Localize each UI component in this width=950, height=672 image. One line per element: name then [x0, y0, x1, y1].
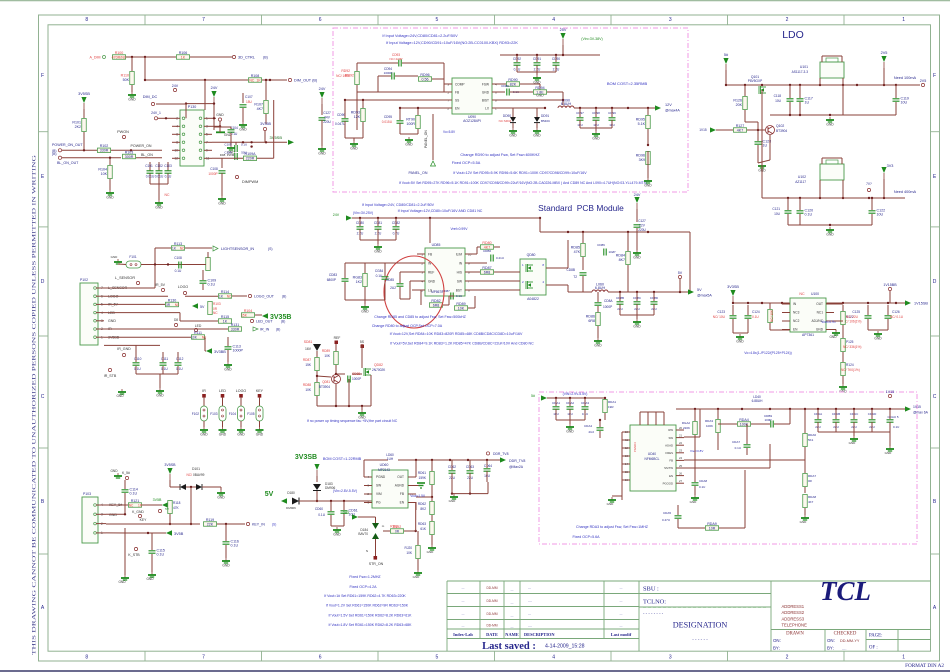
resistor R115 [219, 319, 232, 324]
svg-text:- - - - - -: - - - - - - [692, 637, 708, 642]
resistor R113 [172, 246, 185, 251]
wire [887, 305, 889, 315]
resistor RDA9 [706, 526, 719, 531]
ground [151, 572, 153, 575]
svg-text:Fixed Fsw=1.2MHZ: Fixed Fsw=1.2MHZ [349, 575, 381, 579]
svg-text:100R: 100R [406, 122, 415, 126]
wire [473, 262, 487, 264]
svg-text:0.1U: 0.1U [456, 294, 462, 298]
ground [230, 145, 232, 148]
svg-text:0.1U: 0.1U [208, 282, 216, 286]
pin [194, 328, 197, 331]
ground [417, 570, 419, 573]
svg-text:If Vout=1.2V Set RD61=150K RD6: If Vout=1.2V Set RD61=150K RD62=9R RD63=… [326, 604, 409, 608]
wire [431, 535, 433, 545]
svg-text:CDAU 5: CDAU 5 [887, 415, 898, 419]
junction [562, 54, 564, 56]
svg-text:15: 15 [625, 470, 629, 474]
wire [364, 459, 388, 461]
junction [536, 54, 538, 56]
svg-text:...: ... [462, 586, 465, 590]
svg-text:RD92: RD92 [341, 69, 350, 73]
junction [431, 496, 433, 498]
svg-text:BL_ON: BL_ON [141, 153, 153, 157]
wire [316, 491, 318, 501]
diode DD91 [534, 117, 540, 122]
capacitor C109 [200, 280, 207, 282]
junction [732, 302, 734, 304]
wire [159, 374, 161, 388]
fuse F102 [201, 406, 208, 421]
svg-text:D180: D180 [287, 491, 295, 495]
svg-text:LED_OUT: LED_OUT [256, 320, 273, 324]
svg-text:If Vout=1# Set RD61=159K RD62=: If Vout=1# Set RD61=159K RD62=4.7K RD63=… [324, 594, 406, 598]
svg-text:C125: C125 [852, 310, 860, 314]
wire [510, 91, 533, 93]
svg-text:BIST: BIST [482, 98, 489, 102]
capacitor C119 [893, 98, 900, 100]
ground [595, 131, 597, 134]
junction [415, 530, 417, 532]
junction [417, 107, 419, 109]
svg-text:(B): (B) [52, 152, 57, 156]
svg-text:P102: P102 [80, 278, 88, 282]
wire [106, 504, 128, 506]
svg-text:10K: 10K [305, 388, 312, 392]
resistor RG83 [363, 274, 368, 287]
svg-text:CD83: CD83 [329, 273, 337, 277]
svg-text:GND: GND [736, 340, 744, 344]
wire [185, 104, 187, 119]
pin [183, 291, 186, 294]
wire [762, 197, 905, 199]
wire [819, 180, 821, 198]
svg-text:RD62: RD62 [418, 502, 426, 506]
svg-text:0.1U: 0.1U [165, 175, 172, 179]
svg-text:NC: NC [165, 193, 170, 197]
wire [230, 127, 232, 129]
svg-text:BY:: BY: [827, 646, 834, 651]
svg-text:DIMPWM: DIMPWM [242, 180, 258, 184]
svg-text:...: ... [511, 601, 514, 605]
net arrow [281, 498, 287, 504]
resistor RDA4 [738, 422, 751, 427]
svg-text:F: F [41, 73, 44, 79]
svg-text:0.01U: 0.01U [155, 175, 164, 179]
wire [732, 305, 734, 315]
wire [761, 90, 763, 198]
junction [451, 492, 453, 494]
svg-text:NC 1K: NC 1K [249, 78, 261, 82]
pin [58, 156, 61, 159]
svg-text:C107: C107 [245, 95, 253, 99]
wire [316, 371, 318, 382]
wire [370, 380, 372, 406]
junction [169, 523, 171, 525]
wire [842, 325, 844, 334]
junction [579, 107, 581, 109]
svg-text:11: 11 [625, 438, 628, 442]
svg-text:220U: 220U [638, 228, 646, 232]
pin [173, 88, 176, 91]
wire [789, 409, 791, 424]
wire [169, 480, 171, 487]
wire [104, 303, 165, 305]
svg-text:F103: F103 [210, 412, 217, 416]
junction [544, 107, 546, 109]
svg-text:R109A: R109A [245, 152, 257, 156]
wire [868, 329, 888, 331]
wire [417, 129, 419, 134]
junction [265, 79, 267, 81]
junction [213, 117, 215, 119]
junction [124, 513, 126, 515]
svg-text:DD-MM: DD-MM [487, 612, 498, 616]
svg-text:(Vin=2.8V-5.5V): (Vin=2.8V-5.5V) [333, 489, 357, 493]
junction [789, 84, 791, 86]
svg-text:...: ... [462, 599, 465, 603]
wire [142, 504, 162, 506]
svg-text:PANEL_ON: PANEL_ON [409, 171, 428, 175]
svg-text:Change RD90 to adjust Fsw, Set: Change RD90 to adjust Fsw, Set Fsw=600KH… [460, 153, 540, 157]
power 24V [636, 203, 638, 209]
svg-text:1: 1 [902, 17, 905, 23]
svg-text:13: 13 [625, 454, 629, 458]
wire [317, 500, 372, 502]
svg-text:5.1K: 5.1K [638, 122, 646, 126]
pin [263, 127, 266, 130]
ground [842, 384, 844, 387]
ground [336, 527, 338, 530]
wire [232, 295, 247, 297]
wire [335, 384, 337, 406]
wire [647, 165, 649, 178]
svg-text:1: 1 [902, 655, 905, 661]
ground [611, 497, 613, 500]
svg-text:24V: 24V [172, 84, 179, 88]
transistor Q102 [766, 126, 775, 135]
wire [842, 78, 844, 115]
svg-text:LOGO_OUT: LOGO_OUT [254, 295, 275, 299]
svg-text:FRES: FRES [666, 451, 674, 455]
svg-text:NC/ 220P: NC/ 220P [389, 57, 402, 61]
svg-text:GND: GND [109, 513, 117, 517]
fuse F104 [238, 406, 245, 421]
svg-text:3D_CTRL: 3D_CTRL [238, 56, 255, 60]
svg-text:GND: GND [156, 394, 164, 398]
svg-text:12K: 12K [354, 115, 361, 119]
ground [222, 427, 224, 430]
junction [717, 408, 719, 410]
net arrow [162, 502, 168, 508]
svg-text:5V: 5V [165, 507, 169, 511]
svg-text:RD82: RD82 [431, 299, 440, 303]
wire [834, 329, 836, 331]
svg-text:GND: GND [108, 319, 116, 323]
svg-text:AOZ1284PI: AOZ1284PI [463, 119, 481, 123]
svg-text:IR_5V: IR_5V [155, 283, 166, 287]
wire [409, 281, 411, 299]
svg-text:RDA1: RDA1 [608, 400, 616, 404]
wire [344, 100, 346, 118]
svg-text:0.1U: 0.1U [161, 367, 168, 371]
wire [539, 218, 541, 232]
power 2V5 [883, 62, 885, 68]
svg-text:SS: SS [455, 98, 459, 102]
svg-text:OF :: OF : [869, 646, 878, 651]
wire [676, 408, 905, 410]
wire [151, 544, 153, 550]
fuse F103 [219, 406, 226, 421]
svg-text:CD85: CD85 [386, 278, 394, 282]
svg-text:RGA2: RGA2 [682, 421, 691, 425]
junction [883, 84, 885, 86]
wire [412, 289, 417, 291]
wire [190, 56, 232, 58]
wire [612, 495, 622, 497]
svg-text:Change RD80 to adjust OCP,Set: Change RD80 to adjust OCP,Set OCP=7.0A [372, 324, 443, 328]
wire [213, 104, 215, 130]
junction [781, 302, 783, 304]
resistor R121 [129, 503, 142, 508]
svg-text:DD-MM: DD-MM [487, 599, 498, 603]
pin [250, 319, 253, 322]
svg-text:RDA3: RDA3 [705, 419, 713, 423]
svg-text:330R: 330R [231, 327, 240, 331]
wire [474, 296, 476, 308]
svg-text:C110: C110 [134, 357, 142, 361]
svg-text:GND: GND [110, 469, 118, 473]
ground [220, 490, 222, 493]
wire [417, 108, 419, 115]
wire [716, 129, 733, 131]
wire [627, 265, 629, 292]
svg-text:GND: GND [128, 98, 136, 102]
wire [356, 85, 358, 92]
svg-text:10U: 10U [774, 212, 781, 216]
svg-text:1K: 1K [181, 55, 186, 59]
junction [147, 532, 149, 534]
wire [789, 85, 791, 98]
wire [639, 412, 641, 425]
net arrow [352, 514, 358, 519]
svg-text:5: 5 [436, 655, 439, 661]
wire [158, 184, 160, 200]
svg-text:27: 27 [679, 479, 683, 483]
svg-text:2: 2 [786, 655, 789, 661]
wire [520, 83, 540, 85]
title block [447, 580, 931, 582]
svg-text:330R: 330R [100, 149, 109, 153]
svg-text:LED: LED [219, 389, 226, 393]
svg-text:GND: GND [874, 337, 882, 341]
svg-text:C124: C124 [752, 310, 760, 314]
wire [747, 319, 749, 333]
svg-text:- - - - - - - -: - - - - - - - - [643, 611, 664, 616]
svg-text:R192: R192 [390, 525, 398, 529]
svg-text:RD87: RD87 [482, 266, 491, 270]
svg-text:DM906: DM906 [286, 506, 296, 510]
fuse F101 [126, 261, 141, 268]
wire [416, 496, 432, 498]
svg-text:GND: GND [449, 499, 457, 503]
junction [190, 523, 192, 525]
svg-text:D8: D8 [174, 318, 178, 322]
svg-text:QD80: QD80 [527, 253, 536, 257]
ground [321, 146, 323, 149]
svg-text:RJ20: RJ20 [405, 546, 413, 550]
wire [769, 323, 771, 330]
svg-text:L_SENSOR: L_SENSOR [115, 276, 136, 280]
wire [636, 209, 638, 222]
svg-text:LOGO: LOGO [236, 389, 247, 393]
connector P102 [80, 283, 98, 345]
junction [895, 302, 897, 304]
svg-text:If Input Voltage=24V,CD80/CD81: If Input Voltage=24V,CD80/CD81=2.2uF/50V [382, 34, 458, 38]
wire [202, 486, 221, 488]
wire [842, 334, 844, 338]
junction [599, 419, 601, 421]
svg-text:R106: R106 [179, 51, 188, 55]
wire [352, 217, 498, 219]
svg-text:1000P: 1000P [384, 71, 393, 75]
wire [694, 435, 696, 450]
wire [567, 240, 569, 268]
wire [383, 530, 390, 532]
wire [677, 505, 679, 515]
wire [819, 78, 821, 85]
wire [360, 239, 396, 241]
power 3V5SB [169, 474, 171, 480]
svg-text:GND: GND [566, 430, 574, 434]
svg-text:R115: R115 [221, 315, 229, 319]
IC U101 [820, 62, 844, 78]
svg-text:GND: GND [633, 325, 641, 329]
svg-text:GND: GND [509, 134, 517, 138]
IC UD85 MP8670 [425, 248, 465, 296]
junction [761, 84, 763, 86]
wire [871, 214, 873, 225]
svg-text:THIS DRAWING CANNOT BE COMMUNI: THIS DRAWING CANNOT BE COMMUNICATED TO U… [33, 154, 38, 655]
wire [834, 320, 843, 322]
wire [663, 412, 665, 425]
svg-text:GND: GND [200, 433, 208, 437]
wire [569, 420, 571, 424]
net arrow [710, 127, 716, 132]
svg-text:NC/ 336(1%): NC/ 336(1%) [843, 345, 861, 349]
svg-text:T2: T2 [573, 275, 577, 279]
wire [399, 272, 401, 283]
svg-text:CDA4: CDA4 [584, 424, 592, 428]
wire [595, 128, 597, 131]
svg-text:1000P: 1000P [352, 377, 361, 381]
capacitor C108 [178, 262, 180, 269]
svg-text:3V5SB: 3V5SB [78, 92, 90, 96]
svg-text:PGOOD: PGOOD [663, 481, 673, 485]
wire [104, 295, 168, 297]
ground [240, 427, 242, 430]
svg-text:CD87: CD87 [442, 289, 450, 293]
svg-text:If Vout=1.5V Set RD61=150K RD6: If Vout=1.5V Set RD61=150K RD62=8.2K RD6… [329, 613, 413, 617]
svg-text:If no power up timing sequence: If no power up timing sequence fau +5V,t… [307, 419, 398, 423]
svg-text:2U2: 2U2 [588, 430, 594, 434]
wire [398, 459, 500, 461]
wire [364, 287, 366, 300]
svg-text:(B): (B) [263, 56, 268, 60]
svg-text:4: 4 [552, 17, 555, 23]
power 3V3 [883, 173, 885, 179]
junction [636, 291, 638, 293]
wire [399, 123, 401, 134]
svg-text:Vout=1.5V: Vout=1.5V [410, 494, 426, 498]
junction [562, 99, 564, 101]
svg-text:NC/ 106(1%): NC/ 106(1%) [843, 320, 861, 324]
wire [158, 117, 172, 119]
svg-text:GND: GND [217, 496, 225, 500]
svg-text:25: 25 [679, 464, 683, 468]
junction [361, 405, 363, 407]
junction [395, 217, 397, 219]
svg-text:NC: NC [129, 504, 134, 508]
svg-text:Q102: Q102 [776, 124, 784, 128]
svg-text:NFM6BCL: NFM6BCL [645, 457, 660, 461]
svg-text:0.1U: 0.1U [805, 212, 813, 216]
resistor RD86 [596, 313, 601, 326]
capacitor CD8A [595, 302, 602, 304]
svg-text:ADDRESS3: ADDRESS3 [782, 616, 805, 621]
ground [694, 495, 696, 498]
wire [867, 305, 869, 315]
svg-text:If Input Voltage=12V,CD80=10uF: If Input Voltage=12V,CD80=10uF/16V AND C… [398, 209, 483, 213]
wire [770, 114, 843, 116]
wire [104, 336, 191, 338]
wire [141, 264, 155, 266]
wire [135, 345, 137, 358]
junction [653, 291, 655, 293]
capacitor CDA7 [744, 444, 751, 446]
svg-text:UD40: UD40 [648, 452, 656, 456]
wire [747, 129, 765, 131]
wire [452, 493, 488, 495]
svg-text:0.1U: 0.1U [699, 485, 705, 489]
capacitor CD61 [341, 510, 348, 512]
power 5# [725, 64, 727, 70]
svg-text:REF: REF [428, 270, 434, 274]
svg-text:N: N [366, 549, 368, 553]
ground [597, 338, 599, 341]
junction [689, 291, 691, 293]
connector P130 [180, 110, 204, 166]
capacitor C120 [797, 210, 804, 212]
svg-text:NC: NC [175, 303, 180, 307]
svg-text:10U: 10U [901, 100, 908, 104]
junction [889, 408, 891, 410]
junction [265, 141, 267, 143]
wire [404, 530, 416, 532]
wire [104, 287, 155, 289]
svg-text:C126: C126 [892, 310, 900, 314]
svg-text:6R8: 6R8 [433, 303, 440, 307]
junction [362, 99, 364, 101]
wire [219, 126, 221, 132]
resistor R114 [219, 294, 232, 299]
svg-text:6: 6 [319, 17, 322, 23]
capacitor C121 [785, 210, 792, 212]
svg-text:3V3SB: 3V3SB [295, 454, 317, 461]
ground [259, 427, 261, 430]
net arrow [688, 289, 694, 294]
svg-text:CDA7: CDA7 [732, 440, 740, 444]
